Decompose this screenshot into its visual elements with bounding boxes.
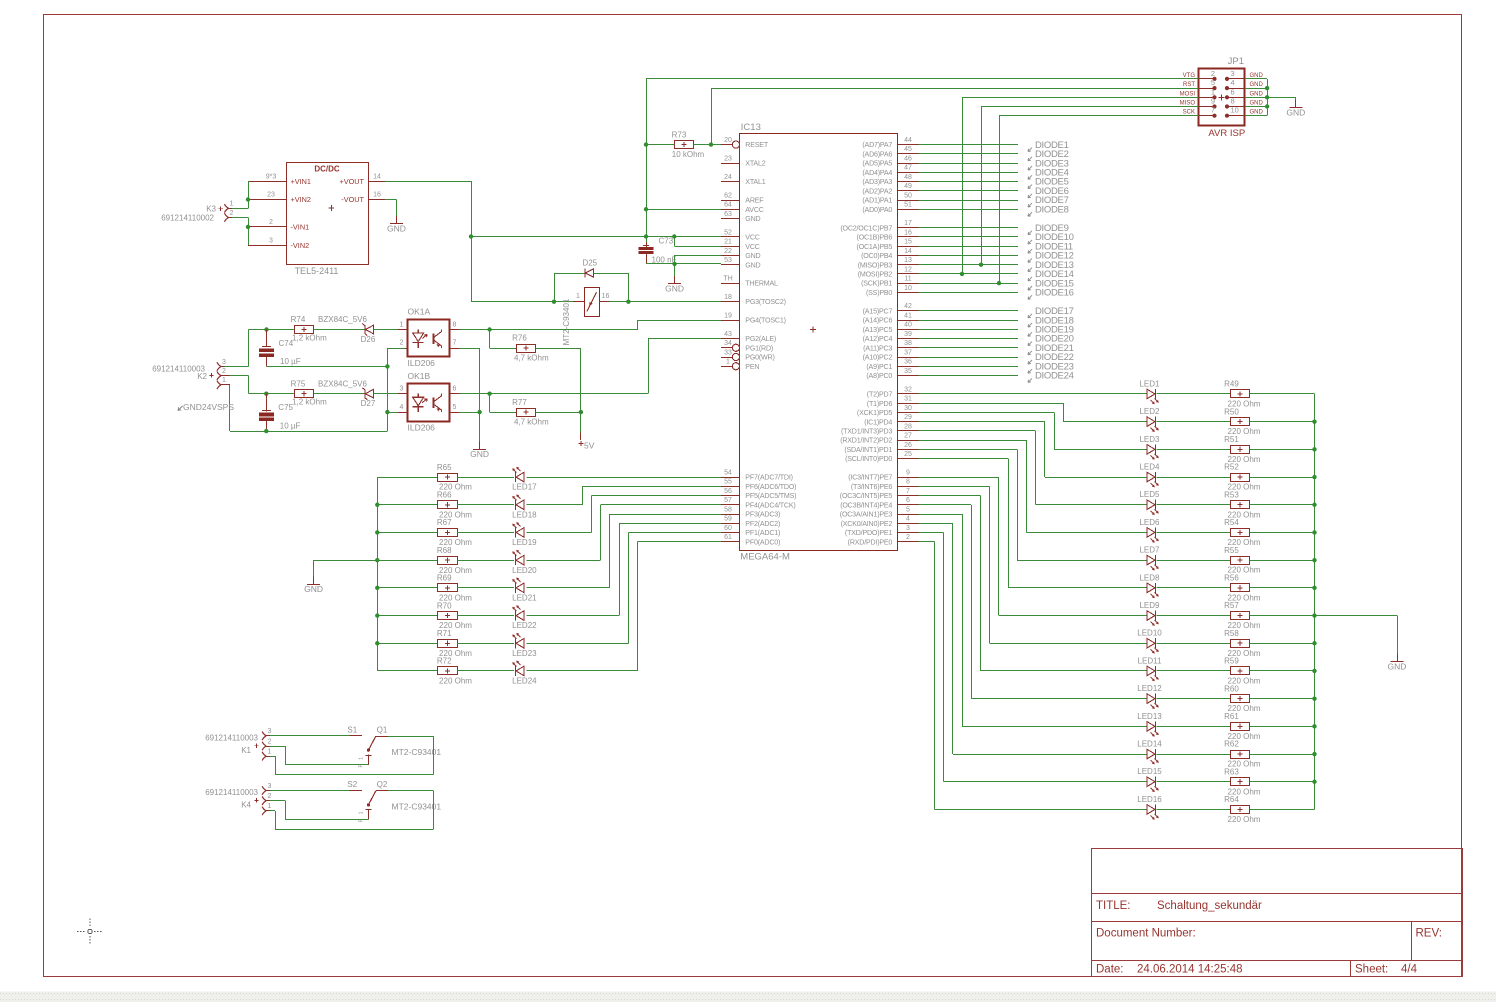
svg-text:2: 2 bbox=[230, 210, 234, 217]
resistor R60 bbox=[1231, 695, 1250, 703]
svg-text:55: 55 bbox=[724, 479, 732, 486]
svg-text:GND: GND bbox=[665, 284, 684, 294]
svg-text:GND: GND bbox=[745, 215, 760, 223]
svg-text:1,2 kOhm: 1,2 kOhm bbox=[292, 398, 327, 407]
svg-text:AVR ISP: AVR ISP bbox=[1208, 128, 1245, 139]
resistor R75 bbox=[295, 390, 314, 398]
resistor R52 bbox=[1231, 474, 1250, 482]
svg-text:11: 11 bbox=[904, 276, 911, 283]
svg-text:(OC1A)PB5: (OC1A)PB5 bbox=[857, 243, 893, 251]
ground below C73 bbox=[674, 276, 676, 284]
IC IC13 origin cross bbox=[810, 326, 816, 332]
net label DIODE4 bbox=[1028, 175, 1032, 179]
svg-text:3: 3 bbox=[906, 525, 910, 532]
junction left bus bbox=[375, 641, 379, 645]
junction VCC at C73 bbox=[644, 234, 648, 238]
svg-text:PF1(ADC1): PF1(ADC1) bbox=[745, 529, 780, 537]
svg-text:(OC0)PB4: (OC0)PB4 bbox=[861, 252, 892, 260]
svg-text:38: 38 bbox=[904, 340, 912, 347]
svg-text:LED2: LED2 bbox=[1139, 407, 1160, 416]
svg-text:2: 2 bbox=[269, 219, 273, 226]
svg-text:LED7: LED7 bbox=[1139, 546, 1160, 555]
svg-text:(A12)PC4: (A12)PC4 bbox=[863, 335, 893, 343]
net label DIODE10 bbox=[1028, 240, 1032, 244]
svg-text:6: 6 bbox=[453, 386, 457, 393]
connector K4 pin 3 bbox=[262, 786, 266, 795]
wire right array row 6 bbox=[919, 440, 1027, 442]
wire net DIODE23 bbox=[919, 366, 1019, 368]
svg-text:49: 49 bbox=[904, 183, 912, 190]
svg-text:1: 1 bbox=[576, 293, 580, 300]
junction right bus bbox=[1312, 558, 1316, 562]
svg-text:MT2-C93401: MT2-C93401 bbox=[562, 298, 571, 345]
net label DIODE12 bbox=[1028, 258, 1032, 262]
junction C74 top bbox=[264, 327, 268, 331]
IC13 pin 62 AREF bbox=[721, 200, 740, 202]
connector JP1 origin cross bbox=[1219, 94, 1225, 100]
wire R73 left lead bbox=[646, 144, 674, 146]
wire net DIODE2 bbox=[919, 153, 1019, 155]
wire net DIODE9 bbox=[919, 227, 1019, 229]
svg-text:R58: R58 bbox=[1224, 629, 1239, 638]
svg-text:53: 53 bbox=[724, 257, 732, 264]
svg-text:IC13: IC13 bbox=[741, 122, 761, 133]
IC13 pin 64 AVCC bbox=[721, 209, 740, 211]
resistor R74 bbox=[295, 326, 314, 334]
svg-text:6: 6 bbox=[1231, 87, 1235, 96]
IC13 pin 10 (SS)PB0 bbox=[898, 292, 919, 294]
svg-text:1: 1 bbox=[359, 757, 365, 760]
svg-text:56: 56 bbox=[724, 488, 732, 495]
IC13 pin 39 (A12)PC4 bbox=[898, 338, 919, 340]
svg-text:OK1B: OK1B bbox=[408, 371, 431, 381]
wire net DIODE1 bbox=[919, 144, 1019, 146]
svg-text:(RXD1/INT2)PD2: (RXD1/INT2)PD2 bbox=[840, 437, 892, 445]
wire net DIODE24 bbox=[919, 375, 1019, 377]
svg-text:GND: GND bbox=[1250, 82, 1264, 88]
svg-text:14: 14 bbox=[373, 173, 381, 180]
svg-text:1: 1 bbox=[359, 811, 365, 814]
svg-text:TEL5-2411: TEL5-2411 bbox=[295, 266, 339, 276]
wire left array row 20 bbox=[377, 560, 438, 562]
svg-text:LED17: LED17 bbox=[512, 483, 537, 492]
IC13 pin 20 RESET bbox=[721, 144, 732, 146]
svg-text:47: 47 bbox=[904, 165, 912, 172]
svg-text:20: 20 bbox=[724, 137, 732, 144]
DC/DC origin cross bbox=[329, 205, 335, 211]
connector K1 pin 3 bbox=[262, 732, 266, 741]
svg-text:PF0(ADC0): PF0(ADC0) bbox=[745, 538, 780, 546]
wire K1 switch loop bbox=[388, 736, 434, 738]
junction at +VIN2 bbox=[246, 197, 250, 201]
wire net DIODE13 bbox=[919, 264, 1019, 266]
svg-text:R54: R54 bbox=[1224, 518, 1239, 527]
svg-text:23: 23 bbox=[724, 155, 732, 162]
OK1A internal symbol bbox=[413, 330, 424, 349]
wire net DIODE19 bbox=[919, 329, 1019, 331]
svg-text:LED3: LED3 bbox=[1139, 435, 1160, 444]
OK1A pin 7 bbox=[450, 348, 459, 350]
svg-text:(MISO)PB3: (MISO)PB3 bbox=[858, 261, 893, 269]
svg-text:(A8)PC0: (A8)PC0 bbox=[866, 372, 892, 380]
wire K1 pin3 to switch bbox=[270, 735, 350, 737]
wire left array GND bus bbox=[377, 477, 379, 671]
LED LED5 bbox=[1147, 500, 1155, 510]
svg-text:46: 46 bbox=[904, 155, 912, 162]
svg-text:R67: R67 bbox=[437, 518, 452, 527]
ground left array bbox=[313, 577, 315, 585]
svg-text:4: 4 bbox=[400, 404, 404, 411]
LED LED13 bbox=[1147, 722, 1155, 732]
IC13 pin 12 (MOSI)PB2 bbox=[898, 273, 919, 275]
net label DIODE19 bbox=[1028, 332, 1032, 336]
junction return rail top bbox=[385, 364, 389, 368]
IC13 pin 24 XTAL1 bbox=[721, 181, 740, 183]
svg-text:48: 48 bbox=[904, 174, 912, 181]
IC13 pin 37 (A10)PC2 bbox=[898, 357, 919, 359]
junction right bus bbox=[1312, 586, 1316, 590]
junction left bus bbox=[375, 530, 379, 534]
wire K3 pin1 to +VIN rails bbox=[232, 208, 248, 210]
svg-text:27: 27 bbox=[904, 433, 912, 440]
svg-text:24: 24 bbox=[724, 174, 732, 181]
junction return at OK1B pin4 bbox=[385, 410, 389, 414]
IC13 pin 42 (A15)PC7 bbox=[898, 310, 919, 312]
svg-text:Sheet:: Sheet: bbox=[1355, 964, 1388, 976]
ground right array bbox=[1397, 654, 1399, 662]
IC13 pin TH THERMAL bbox=[721, 283, 740, 285]
svg-text:(RXD/PDI)PE0: (RXD/PDI)PE0 bbox=[848, 538, 893, 546]
wire net DIODE21 bbox=[919, 347, 1019, 349]
net label DIODE21 bbox=[1028, 351, 1032, 355]
wire GND22 pin bbox=[675, 255, 721, 257]
resistor R66 bbox=[438, 501, 458, 509]
svg-text:DC/DC: DC/DC bbox=[314, 165, 340, 174]
svg-text:PG4(TOSC1): PG4(TOSC1) bbox=[745, 317, 785, 325]
net label DIODE16 bbox=[1028, 295, 1032, 299]
resistor R49 bbox=[1231, 390, 1250, 398]
svg-text:LED8: LED8 bbox=[1139, 573, 1160, 582]
svg-text:R77: R77 bbox=[512, 398, 527, 407]
svg-text:5: 5 bbox=[453, 404, 457, 411]
svg-text:7: 7 bbox=[453, 340, 457, 347]
LED LED12 bbox=[1147, 694, 1155, 704]
svg-text:4/4: 4/4 bbox=[1401, 964, 1418, 976]
svg-text:PG3(TOSC2): PG3(TOSC2) bbox=[745, 298, 785, 306]
svg-text:(AD1)PA1: (AD1)PA1 bbox=[862, 197, 892, 205]
wire VTG vertical to VCC rail bbox=[646, 145, 648, 247]
JP1 pin 5 RST bbox=[1198, 88, 1212, 90]
IC13 pin 45 (AD6)PA6 bbox=[898, 153, 919, 155]
resistor R55 bbox=[1231, 557, 1250, 565]
svg-text:2: 2 bbox=[906, 534, 910, 541]
svg-text:4: 4 bbox=[1231, 78, 1235, 87]
svg-text:61: 61 bbox=[724, 534, 732, 541]
connector K3 pin 1 bbox=[225, 204, 229, 213]
LED LED17 bbox=[516, 472, 524, 482]
DC/DC pin 23 +VIN2 bbox=[248, 199, 286, 201]
svg-text:8: 8 bbox=[453, 321, 457, 328]
JP1 pin 8 GND bbox=[1229, 106, 1245, 108]
svg-text:63: 63 bbox=[724, 211, 732, 218]
svg-text:29: 29 bbox=[904, 414, 912, 421]
svg-text:64: 64 bbox=[724, 202, 732, 209]
svg-text:R59: R59 bbox=[1224, 657, 1239, 666]
wire net DIODE12 bbox=[919, 255, 1019, 257]
IC13 pin 47 (AD4)PA4 bbox=[898, 172, 919, 174]
wire net DIODE10 bbox=[919, 236, 1019, 238]
wire K4 pin2 to contact bbox=[270, 800, 285, 802]
svg-text:PF4(ADC4/TCK): PF4(ADC4/TCK) bbox=[745, 501, 795, 509]
wire net MOSI (JP1 pin1 to PB2) bbox=[962, 97, 1198, 99]
svg-text:-VOUT: -VOUT bbox=[341, 195, 364, 204]
resistor R58 bbox=[1231, 640, 1250, 648]
svg-text:C75: C75 bbox=[278, 403, 293, 412]
wire VCC to pin21 bbox=[674, 237, 676, 247]
resistor R68 bbox=[438, 557, 458, 565]
net label DIODE18 bbox=[1028, 323, 1032, 327]
svg-text:LED10: LED10 bbox=[1137, 629, 1162, 638]
svg-text:R53: R53 bbox=[1224, 490, 1239, 499]
junction D25 left leg bbox=[552, 300, 556, 304]
wire left array row 23 bbox=[377, 643, 438, 645]
wire net VTG (JP1 pin2 to R73) bbox=[646, 78, 1198, 80]
svg-text:54: 54 bbox=[724, 469, 732, 476]
svg-text:(OC3A/AIN1)PE3: (OC3A/AIN1)PE3 bbox=[840, 511, 893, 519]
JP1 pin 2 VTG bbox=[1198, 78, 1212, 80]
wire OK1A pin7 to GND rail bbox=[459, 348, 480, 350]
svg-text:GND: GND bbox=[470, 449, 489, 459]
svg-text:DIODE8: DIODE8 bbox=[1035, 204, 1069, 215]
svg-text:(SCK)PB1: (SCK)PB1 bbox=[861, 280, 892, 288]
svg-text:GND: GND bbox=[1388, 662, 1407, 672]
LED LED10 bbox=[1147, 638, 1155, 648]
IC13 pin 9 (IC3/INT7)PE7 bbox=[898, 477, 919, 479]
wire D25 right leg bbox=[594, 273, 629, 275]
net label GND24VSPS bbox=[178, 406, 183, 411]
svg-text:GND: GND bbox=[745, 261, 760, 269]
LED LED16 bbox=[1147, 805, 1155, 815]
svg-text:Schaltung_sekundär: Schaltung_sekundär bbox=[1157, 900, 1262, 912]
OK1B pin 4 bbox=[398, 412, 407, 414]
svg-text:K1: K1 bbox=[241, 746, 251, 755]
svg-text:3: 3 bbox=[268, 783, 272, 790]
wire right array row 16 bbox=[919, 541, 935, 543]
svg-text:R50: R50 bbox=[1224, 407, 1239, 416]
svg-text:DIODE16: DIODE16 bbox=[1035, 288, 1074, 299]
svg-text:(TXD1/INT3)PD3: (TXD1/INT3)PD3 bbox=[841, 427, 892, 435]
title block row line 1 bbox=[1091, 893, 1462, 895]
junction right bus bbox=[1312, 724, 1316, 728]
svg-text:25: 25 bbox=[904, 451, 912, 458]
svg-text:9: 9 bbox=[1211, 97, 1215, 106]
svg-text:7: 7 bbox=[906, 488, 910, 495]
svg-text:5: 5 bbox=[906, 506, 910, 513]
svg-text:1: 1 bbox=[230, 201, 234, 208]
junction SCK at PB1 bbox=[997, 281, 1001, 285]
svg-text:4,7 kOhm: 4,7 kOhm bbox=[514, 354, 549, 363]
svg-text:28: 28 bbox=[904, 423, 912, 430]
svg-text:R49: R49 bbox=[1224, 380, 1239, 389]
svg-text:(AD6)PA6: (AD6)PA6 bbox=[862, 150, 892, 158]
IC13 pin 43 PG2(ALE) bbox=[721, 338, 740, 340]
svg-text:50: 50 bbox=[904, 192, 912, 199]
resistor R70 bbox=[438, 612, 458, 620]
svg-text:R52: R52 bbox=[1224, 463, 1239, 472]
svg-text:-VIN2: -VIN2 bbox=[291, 241, 310, 250]
svg-text:GND: GND bbox=[1286, 108, 1305, 118]
supply +5V symbol bbox=[580, 432, 582, 440]
IC13 pin 28 (TXD1/INT3)PD3 bbox=[898, 430, 919, 432]
title block REV divider bbox=[1411, 922, 1413, 961]
svg-text:(A13)PC5: (A13)PC5 bbox=[863, 326, 893, 334]
net label DIODE17 bbox=[1028, 314, 1032, 318]
resistor R69 bbox=[438, 584, 458, 592]
svg-text:R60: R60 bbox=[1224, 684, 1239, 693]
IC13 pin 40 (A13)PC5 bbox=[898, 329, 919, 331]
svg-text:23: 23 bbox=[267, 192, 275, 199]
mouse crosshair cursor bbox=[77, 919, 103, 945]
svg-text:R68: R68 bbox=[437, 546, 452, 555]
net label DIODE2 bbox=[1028, 157, 1032, 161]
JP1 pin 10 GND bbox=[1229, 115, 1245, 117]
OK1A pin 8 bbox=[450, 329, 459, 331]
svg-text:K2: K2 bbox=[197, 372, 207, 381]
LED LED23 bbox=[516, 638, 524, 648]
svg-text:GND: GND bbox=[1250, 110, 1264, 116]
svg-text:Document Number:: Document Number: bbox=[1096, 928, 1196, 940]
svg-text:(SS)PB0: (SS)PB0 bbox=[866, 289, 892, 297]
wire net DIODE20 bbox=[919, 338, 1019, 340]
IC13 pin 14 (OC0)PB4 bbox=[898, 255, 919, 257]
svg-text:VCC: VCC bbox=[745, 234, 759, 242]
wire net DIODE16 bbox=[919, 292, 1019, 294]
junction C75 bottom bbox=[264, 429, 268, 433]
net label DIODE9 bbox=[1028, 231, 1032, 235]
svg-text:(T2)PD7: (T2)PD7 bbox=[867, 391, 893, 399]
svg-text:PF7(ADC7/TDI): PF7(ADC7/TDI) bbox=[745, 474, 792, 482]
junction right bus bbox=[1312, 419, 1316, 423]
IC13 pin 15 (OC1A)PB5 bbox=[898, 246, 919, 248]
IC13 pin 36 (A9)PC1 bbox=[898, 366, 919, 368]
svg-text:51: 51 bbox=[904, 202, 912, 209]
wire net DIODE4 bbox=[919, 172, 1019, 174]
svg-text:45: 45 bbox=[904, 146, 912, 153]
JP1 pin 4 GND bbox=[1229, 88, 1245, 90]
svg-text:LED5: LED5 bbox=[1139, 490, 1160, 499]
wire net DIODE14 bbox=[919, 273, 1019, 275]
resistor R73 bbox=[675, 141, 694, 149]
LED LED4 bbox=[1147, 472, 1155, 482]
junction right bus bbox=[1312, 780, 1316, 784]
IC13 pin 52 VCC bbox=[721, 236, 740, 238]
svg-text:Q2: Q2 bbox=[377, 780, 388, 789]
svg-text:(IC3/INT7)PE7: (IC3/INT7)PE7 bbox=[848, 474, 892, 482]
svg-text:R61: R61 bbox=[1224, 712, 1239, 721]
net label DIODE7 bbox=[1028, 203, 1032, 207]
wire down to GND symbol bbox=[674, 264, 676, 276]
net label DIODE8 bbox=[1028, 212, 1032, 216]
svg-text:(AD5)PA5: (AD5)PA5 bbox=[862, 160, 892, 168]
svg-text:58: 58 bbox=[724, 506, 732, 513]
capacitor C73 bbox=[646, 242, 648, 247]
LED LED7 bbox=[1147, 555, 1155, 565]
IC13 pin 11 (SCK)PB1 bbox=[898, 283, 919, 285]
svg-text:220 Ohm: 220 Ohm bbox=[1228, 815, 1261, 824]
resistor R56 bbox=[1231, 584, 1250, 592]
svg-text:THERMAL: THERMAL bbox=[745, 280, 778, 288]
resistor R62 bbox=[1231, 751, 1250, 759]
resistor R67 bbox=[438, 529, 458, 537]
svg-text:XTAL1: XTAL1 bbox=[745, 178, 765, 186]
junction right bus bbox=[1312, 447, 1316, 451]
wire left array row 19 bbox=[377, 532, 438, 534]
svg-text:(A11)PC3: (A11)PC3 bbox=[863, 344, 892, 352]
net label DIODE22 bbox=[1028, 360, 1032, 364]
junction +5V rail at VCC row bbox=[469, 234, 473, 238]
connector K4 pin 2 bbox=[262, 796, 266, 805]
resistor R51 bbox=[1231, 446, 1250, 454]
resistor R71 bbox=[438, 640, 458, 648]
svg-text:D27: D27 bbox=[361, 399, 376, 408]
wire right array row 3 bbox=[919, 412, 1055, 414]
svg-text:39: 39 bbox=[904, 331, 912, 338]
LED LED11 bbox=[1147, 666, 1155, 676]
junction right bus bbox=[1312, 641, 1316, 645]
wire right array row 11 bbox=[919, 495, 981, 497]
wire right array row 5 bbox=[919, 430, 1036, 432]
svg-text:R76: R76 bbox=[512, 334, 527, 343]
LED LED9 bbox=[1147, 611, 1155, 621]
svg-text:R56: R56 bbox=[1224, 574, 1239, 583]
svg-text:24.06.2014 14:25:48: 24.06.2014 14:25:48 bbox=[1137, 964, 1243, 976]
resistor R77 bbox=[517, 409, 536, 417]
LED LED6 bbox=[1147, 528, 1155, 538]
junction right bus bbox=[1312, 503, 1316, 507]
svg-text:VCC: VCC bbox=[745, 243, 759, 251]
junction D25 right leg bbox=[626, 300, 630, 304]
IC13 pin 51 (AD0)PA0 bbox=[898, 209, 919, 211]
IC13 pin 25 (SCL/INT0)PD0 bbox=[898, 458, 919, 460]
svg-text:16: 16 bbox=[602, 293, 610, 300]
svg-text:43: 43 bbox=[724, 331, 732, 338]
IC13 pin 8 (T3/INT6)PE6 bbox=[898, 486, 919, 488]
svg-text:37: 37 bbox=[904, 349, 912, 356]
svg-text:62: 62 bbox=[724, 192, 732, 199]
DC/DC pin 2 -VIN1 bbox=[248, 226, 286, 228]
IC13 pin 46 (AD5)PA5 bbox=[898, 163, 919, 165]
IC13 pin 21 VCC bbox=[721, 246, 740, 248]
svg-text:3: 3 bbox=[269, 237, 273, 244]
svg-text:(AD3)PA3: (AD3)PA3 bbox=[862, 178, 892, 186]
svg-text:10: 10 bbox=[1231, 106, 1239, 115]
IC13 pin 30 (XCK1)PD5 bbox=[898, 412, 919, 414]
junction GND rail at OK1B pin5 bbox=[477, 410, 481, 414]
svg-text:16: 16 bbox=[373, 192, 381, 199]
svg-text:1: 1 bbox=[268, 803, 272, 810]
svg-text:33: 33 bbox=[724, 349, 732, 356]
svg-text:+VOUT: +VOUT bbox=[339, 177, 364, 186]
svg-text:2: 2 bbox=[1211, 69, 1215, 78]
connector JP1 body bbox=[1199, 69, 1245, 126]
svg-text:44: 44 bbox=[904, 137, 912, 144]
svg-text:LED19: LED19 bbox=[512, 538, 537, 547]
svg-text:LED1: LED1 bbox=[1139, 379, 1160, 388]
connector K3 pin 2 bbox=[225, 213, 229, 222]
DC/DC pin 14 +VOUT bbox=[368, 181, 385, 183]
junction GND net at pin53 bbox=[672, 262, 676, 266]
connector K2 pin 2 bbox=[217, 371, 221, 380]
